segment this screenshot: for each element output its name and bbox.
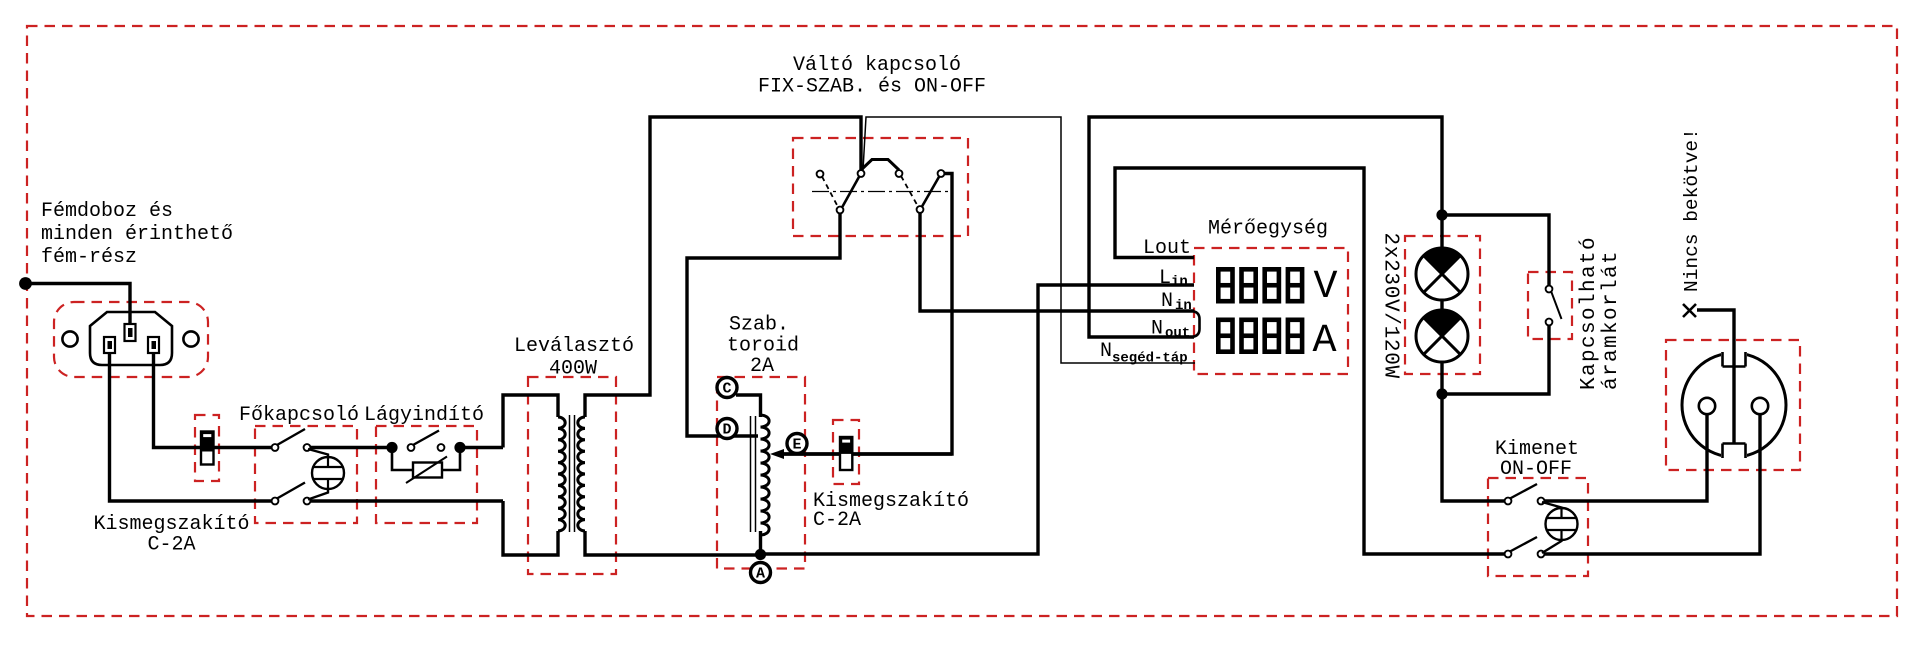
soft starter NTC wires	[392, 448, 460, 471]
svg-text:C-2A: C-2A	[813, 509, 861, 532]
svg-text:fém-rész: fém-rész	[41, 246, 137, 269]
node label A	[751, 563, 771, 583]
changeover pole1 blade	[842, 176, 860, 208]
wire changeover C2 to meter Nin	[920, 212, 1194, 311]
enclosure: isolation transformer box	[528, 377, 616, 574]
wire transformer secondary bottom bus	[585, 531, 761, 555]
socket top notch	[1721, 344, 1747, 367]
wire main switch N to transformer	[307, 499, 503, 502]
wire soft starter to transformer	[460, 446, 503, 449]
node label E	[787, 434, 807, 454]
svg-text:2A: 2A	[750, 355, 774, 378]
output switch pole2 contacts	[1505, 551, 1545, 558]
svg-text:Leválasztó: Leválasztó	[514, 335, 634, 358]
wire meter Nout to lamp bus	[1089, 117, 1442, 337]
label Kimenet ON-OFF	[1495, 438, 1579, 481]
output switch pole1 contacts	[1505, 498, 1545, 505]
svg-text:ON-OFF: ON-OFF	[1500, 458, 1572, 481]
transformer primary winding	[558, 417, 565, 531]
enclosure: output switch box	[1488, 478, 1588, 576]
enclosure: circuit breaker F2 box	[833, 420, 859, 484]
output switch pole2 blade	[1510, 537, 1537, 552]
changeover pole1 alt blade dashed	[822, 177, 838, 208]
wire limiter branch bottom	[1442, 324, 1549, 394]
wire main switch to soft starter	[307, 446, 392, 449]
svg-text:400W: 400W	[549, 358, 597, 381]
svg-text:Szab.: Szab.	[729, 314, 789, 337]
wire chassis to earth pin	[26, 284, 131, 328]
lamp 2	[1416, 310, 1468, 362]
main switch lamp link top	[308, 449, 328, 459]
wire meter Lout to output switch	[1115, 168, 1508, 554]
limiter switch blade	[1551, 291, 1562, 319]
soft starter node dots	[386, 442, 465, 453]
IEC mounting hole right	[183, 331, 198, 346]
variac node A dot	[755, 549, 766, 560]
connector IEC inlet body	[90, 312, 172, 365]
main switch pole1 blade	[277, 429, 305, 445]
wire between lamps	[1440, 296, 1443, 314]
svg-text:2x230V/120W: 2x230V/120W	[1379, 233, 1402, 379]
label Femdoboz	[41, 200, 233, 269]
svg-text:N: N	[1151, 318, 1163, 341]
svg-text:Nincs bekötve!: Nincs bekötve!	[1681, 128, 1703, 292]
svg-text:N: N	[1100, 340, 1112, 363]
wire variac bottom to A	[759, 531, 762, 555]
changeover mech dash-dot line	[812, 191, 950, 193]
enclosure: current limiter switch box	[1528, 272, 1572, 339]
svg-text:Főkapcsoló: Főkapcsoló	[239, 404, 359, 427]
label Nin	[1161, 290, 1192, 314]
wire transformer secondary top to bus	[585, 117, 861, 417]
enclosure: output socket box	[1666, 340, 1800, 470]
enclosure: lamps box	[1405, 236, 1480, 374]
variac wiper arrow E	[770, 449, 952, 459]
wire changeover B3 to wiper E	[783, 174, 952, 455]
svg-text:N: N	[1161, 290, 1173, 313]
lamp bus junction dots	[1436, 209, 1447, 399]
svg-text:L: L	[1159, 267, 1171, 290]
svg-text:A: A	[1312, 319, 1336, 364]
wire transformer primary bottom	[503, 501, 558, 555]
enclosure: changeover switch box	[793, 138, 968, 236]
svg-text:in: in	[1175, 298, 1192, 314]
label Meroegyseg	[1208, 218, 1328, 241]
main switch pole2 contacts	[272, 498, 311, 505]
transformer secondary winding	[578, 417, 585, 531]
lamp 1	[1416, 248, 1468, 300]
svg-text:Lágyindító: Lágyindító	[364, 404, 484, 427]
output switch lamp links	[1542, 502, 1562, 553]
svg-text:FIX-SZAB. és ON-OFF: FIX-SZAB. és ON-OFF	[758, 76, 986, 99]
changeover pole2 alt blade dashed	[901, 176, 918, 207]
node label D	[717, 419, 737, 439]
socket bottom notch	[1721, 444, 1747, 467]
enclosure: circuit breaker F1 box	[195, 415, 219, 481]
socket pin L	[1699, 398, 1715, 414]
socket pin N	[1752, 398, 1768, 414]
wire transformer primary top	[503, 395, 558, 448]
enclosure: variac box	[717, 377, 805, 569]
meter display digits 8888 A	[1218, 319, 1336, 364]
node chassis ground dot	[19, 277, 32, 290]
svg-text:áramkorlát: áramkorlát	[1600, 250, 1623, 390]
wire limiter branch top	[1442, 215, 1549, 286]
wire output switch to socket N	[1544, 413, 1760, 554]
limiter switch contacts	[1546, 286, 1553, 326]
label Lagyindito	[364, 404, 484, 427]
IEC N pin	[148, 337, 159, 353]
wire variac top C	[736, 395, 761, 417]
svg-text:A: A	[756, 566, 765, 583]
IEC earth pin	[125, 324, 136, 341]
wire changeover C1 to variac D	[687, 212, 840, 436]
IEC L pin	[104, 337, 115, 353]
enclosure: measuring unit box	[1194, 248, 1348, 374]
meter display digits 8888 V	[1218, 265, 1337, 310]
svg-text:minden érinthető: minden érinthető	[41, 223, 233, 246]
changeover link bracket	[861, 160, 899, 171]
enclosure: soft starter box	[376, 426, 477, 523]
label Levalaszto 400W	[514, 335, 634, 381]
wire N pin to main switch bottom	[110, 352, 276, 501]
main switch lamp link bottom	[308, 488, 328, 500]
soft starter contacts	[408, 444, 445, 451]
node label C	[717, 378, 737, 398]
svg-text:segéd-táp: segéd-táp	[1112, 351, 1188, 367]
label Valto kapcsolo	[758, 54, 986, 99]
circuit breaker F2 (Kismegszakito C-2A)	[840, 437, 852, 470]
svg-text:out: out	[1165, 326, 1190, 342]
IEC mounting hole left	[62, 331, 77, 346]
svg-text:C-2A: C-2A	[147, 534, 195, 557]
main switch pole1 contacts	[272, 444, 311, 451]
changeover contacts	[817, 170, 945, 213]
soft starter switch blade	[413, 431, 439, 446]
wire bottom bus A to meter Lin	[761, 285, 1194, 554]
socket earth wire not connected	[1697, 310, 1734, 444]
svg-text:Kapcsolható: Kapcsolható	[1578, 236, 1601, 390]
enclosure: main switch box	[255, 426, 357, 523]
label 2x230V/120W	[1379, 233, 1402, 379]
soft starter NTC resistor	[406, 457, 447, 484]
socket outline	[1682, 353, 1786, 457]
output switch pole1 blade	[1510, 484, 1537, 499]
transformer core	[570, 415, 575, 532]
main switch neon lamp	[312, 457, 344, 489]
svg-text:Fémdoboz és: Fémdoboz és	[41, 200, 173, 223]
X mark not connected	[1683, 304, 1696, 317]
svg-text:Lout: Lout	[1143, 237, 1191, 260]
variac core	[751, 416, 756, 532]
label Nincs bekotve	[1681, 128, 1703, 292]
label Kismegszakito C-2A left	[93, 513, 249, 557]
label Lout	[1143, 237, 1191, 260]
label Nsegedtap	[1100, 340, 1188, 367]
svg-text:in: in	[1171, 274, 1188, 290]
svg-text:V: V	[1313, 265, 1337, 310]
label Lin	[1159, 267, 1188, 290]
enclosure: IEC inlet outline	[54, 302, 208, 377]
variac winding	[761, 415, 770, 535]
wire aux feed thin	[863, 117, 1195, 363]
wire lamps to output switch	[1442, 362, 1508, 501]
circuit breaker F1 (Kismegszakito C-2A)	[201, 432, 214, 465]
wire L pin to fuse to main switch	[154, 352, 276, 448]
label Nout	[1151, 318, 1190, 342]
wire Nin-Nout loop link	[1190, 311, 1200, 337]
output switch neon lamp	[1546, 508, 1578, 540]
wire output switch to socket L	[1544, 413, 1707, 501]
svg-text:Mérőegység: Mérőegység	[1208, 218, 1328, 241]
label Szab toroid 2A	[727, 314, 799, 379]
changeover pole2 blade	[922, 176, 940, 207]
main switch pole2 blade	[277, 483, 305, 499]
svg-text:D: D	[722, 422, 731, 439]
label Kismegszakito C-2A right	[813, 490, 969, 532]
label Kapcsolhato aramkorlat	[1578, 236, 1623, 390]
svg-text:C: C	[722, 381, 731, 398]
svg-text:Váltó kapcsoló: Váltó kapcsoló	[793, 54, 961, 77]
svg-text:E: E	[792, 437, 801, 454]
label Fokapcsolo	[239, 404, 359, 427]
